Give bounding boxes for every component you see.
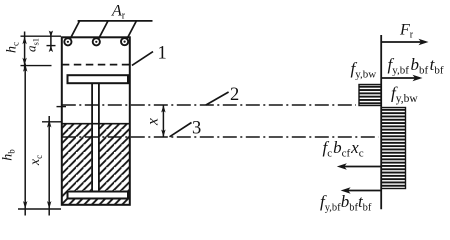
svg-text:Ar: Ar <box>111 3 126 22</box>
line 2 level tick at section edge <box>57 106 67 108</box>
steel web <box>91 83 93 192</box>
bottom flange force arrow (left) <box>344 190 381 192</box>
dimension h_b <box>24 64 26 216</box>
rebar circle middle <box>93 38 100 45</box>
rebar level tick <box>47 45 56 47</box>
hatch zone top border <box>61 123 131 125</box>
svg-text:fy,bfbbftbf: fy,bfbbftbf <box>388 55 444 77</box>
svg-text:x: x <box>144 118 161 126</box>
leader for label 2 <box>206 92 229 105</box>
dimension x_c <box>48 116 50 216</box>
concrete section outline <box>62 37 130 205</box>
leader for label 1 <box>132 52 153 66</box>
force F_r arrow <box>381 41 425 43</box>
svg-text:3: 3 <box>192 119 201 139</box>
extension line at hatch top (x_c top) <box>42 121 61 123</box>
dimension a_s1 <box>50 32 52 51</box>
top flange force arrow <box>381 77 419 79</box>
svg-text:hc: hc <box>5 42 21 53</box>
rebar leader diagonal 1 <box>70 21 80 39</box>
svg-text:fy,bw: fy,bw <box>391 84 418 106</box>
extension line at h_c bottom / dashed level <box>21 65 52 67</box>
svg-text:Fr: Fr <box>399 22 414 41</box>
leader for label 3 <box>170 123 192 137</box>
concrete force arrow (left) <box>340 166 381 168</box>
svg-text:as1: as1 <box>24 38 41 52</box>
steel top flange <box>68 75 129 83</box>
svg-text:fy,bfbbftbf: fy,bfbbftbf <box>320 192 372 214</box>
dash-dot axis line 2 (plastic centroid) <box>62 104 356 106</box>
rebar leader bar <box>78 20 153 22</box>
svg-text:1: 1 <box>158 44 167 64</box>
dashed line (slab soffit), node 1 level <box>62 64 130 66</box>
rebar circle left <box>64 38 71 45</box>
svg-text:2: 2 <box>230 85 239 105</box>
web tension stress block (left of axis) <box>359 85 381 106</box>
compression stress block (right of axis) <box>381 108 405 189</box>
stress axis vertical line <box>380 35 382 209</box>
dash-dot line 3 (neutral axis) <box>62 136 379 138</box>
steel bottom flange <box>68 192 129 199</box>
rebar circle right <box>121 38 128 45</box>
dimension h_c <box>24 32 26 69</box>
rebar leader diagonal 3 <box>127 21 137 39</box>
svg-text:fy,bw: fy,bw <box>351 59 377 81</box>
concrete compression hatch zone <box>61 124 131 206</box>
bottom extension line <box>18 208 61 210</box>
rebar leader diagonal 2 <box>98 21 108 39</box>
svg-text:hb: hb <box>1 149 17 161</box>
svg-text:xc: xc <box>28 155 44 166</box>
top extension line (section top level) <box>21 35 62 37</box>
svg-text:fcbcfxc: fcbcfxc <box>323 138 364 160</box>
dimension x line <box>162 105 164 137</box>
